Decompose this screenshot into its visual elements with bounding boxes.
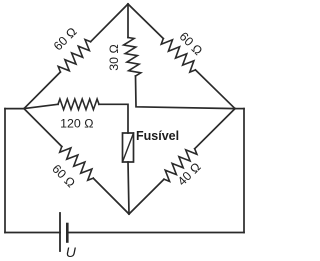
wire bottom-right upper lead: [195, 109, 235, 149]
svg-text:Fusível: Fusível: [136, 129, 179, 143]
svg-text:40 Ω: 40 Ω: [175, 160, 204, 189]
wire 120-ohm left lead: [24, 104, 58, 108]
resistor R6 120Ω horizontal zigzag: [58, 99, 99, 110]
svg-text:30 Ω: 30 Ω: [107, 44, 121, 71]
fuse F1 body: [123, 133, 134, 162]
wire bottom-left lower lead: [93, 178, 129, 214]
resistor R1 60Ω top-left zigzag: [58, 40, 90, 73]
battery U short plate: [66, 224, 69, 242]
wire left stub from left node: [5, 108, 24, 110]
wire right stub to right node: [235, 108, 244, 110]
wire left border: [4, 109, 6, 233]
wire fuse bottom lead: [128, 162, 129, 214]
resistor R4 60Ω bottom-left zigzag: [60, 147, 94, 181]
wire battery to bottom right corner: [67, 232, 244, 234]
wire 30-ohm route to right node: [136, 76, 236, 109]
svg-text:U: U: [66, 244, 77, 260]
wire top-right lead: [128, 4, 163, 39]
svg-text:60 Ω: 60 Ω: [51, 25, 80, 54]
resistor R5 40Ω bottom-right zigzag: [164, 149, 197, 182]
wire bottom-left upper lead: [24, 109, 62, 147]
wire right border: [243, 109, 245, 233]
resistor R2 60Ω top-right zigzag: [161, 39, 195, 73]
wire top-left lower lead: [24, 72, 60, 109]
svg-text:60 Ω: 60 Ω: [176, 29, 205, 58]
wire 120-ohm right lead to fuse branch corner: [99, 104, 128, 133]
wire bottom-right lower lead: [129, 179, 164, 214]
wire bottom left to battery: [5, 232, 60, 234]
wire 30-ohm top lead: [127, 4, 129, 38]
wire top-right lower lead: [195, 70, 235, 109]
wire top-left lead: [91, 4, 128, 42]
fuse F1 diagonal: [123, 133, 134, 162]
svg-text:120 Ω: 120 Ω: [60, 117, 93, 131]
resistor R3 30Ω vertical zigzag: [124, 38, 141, 77]
battery U long plate: [59, 213, 61, 251]
